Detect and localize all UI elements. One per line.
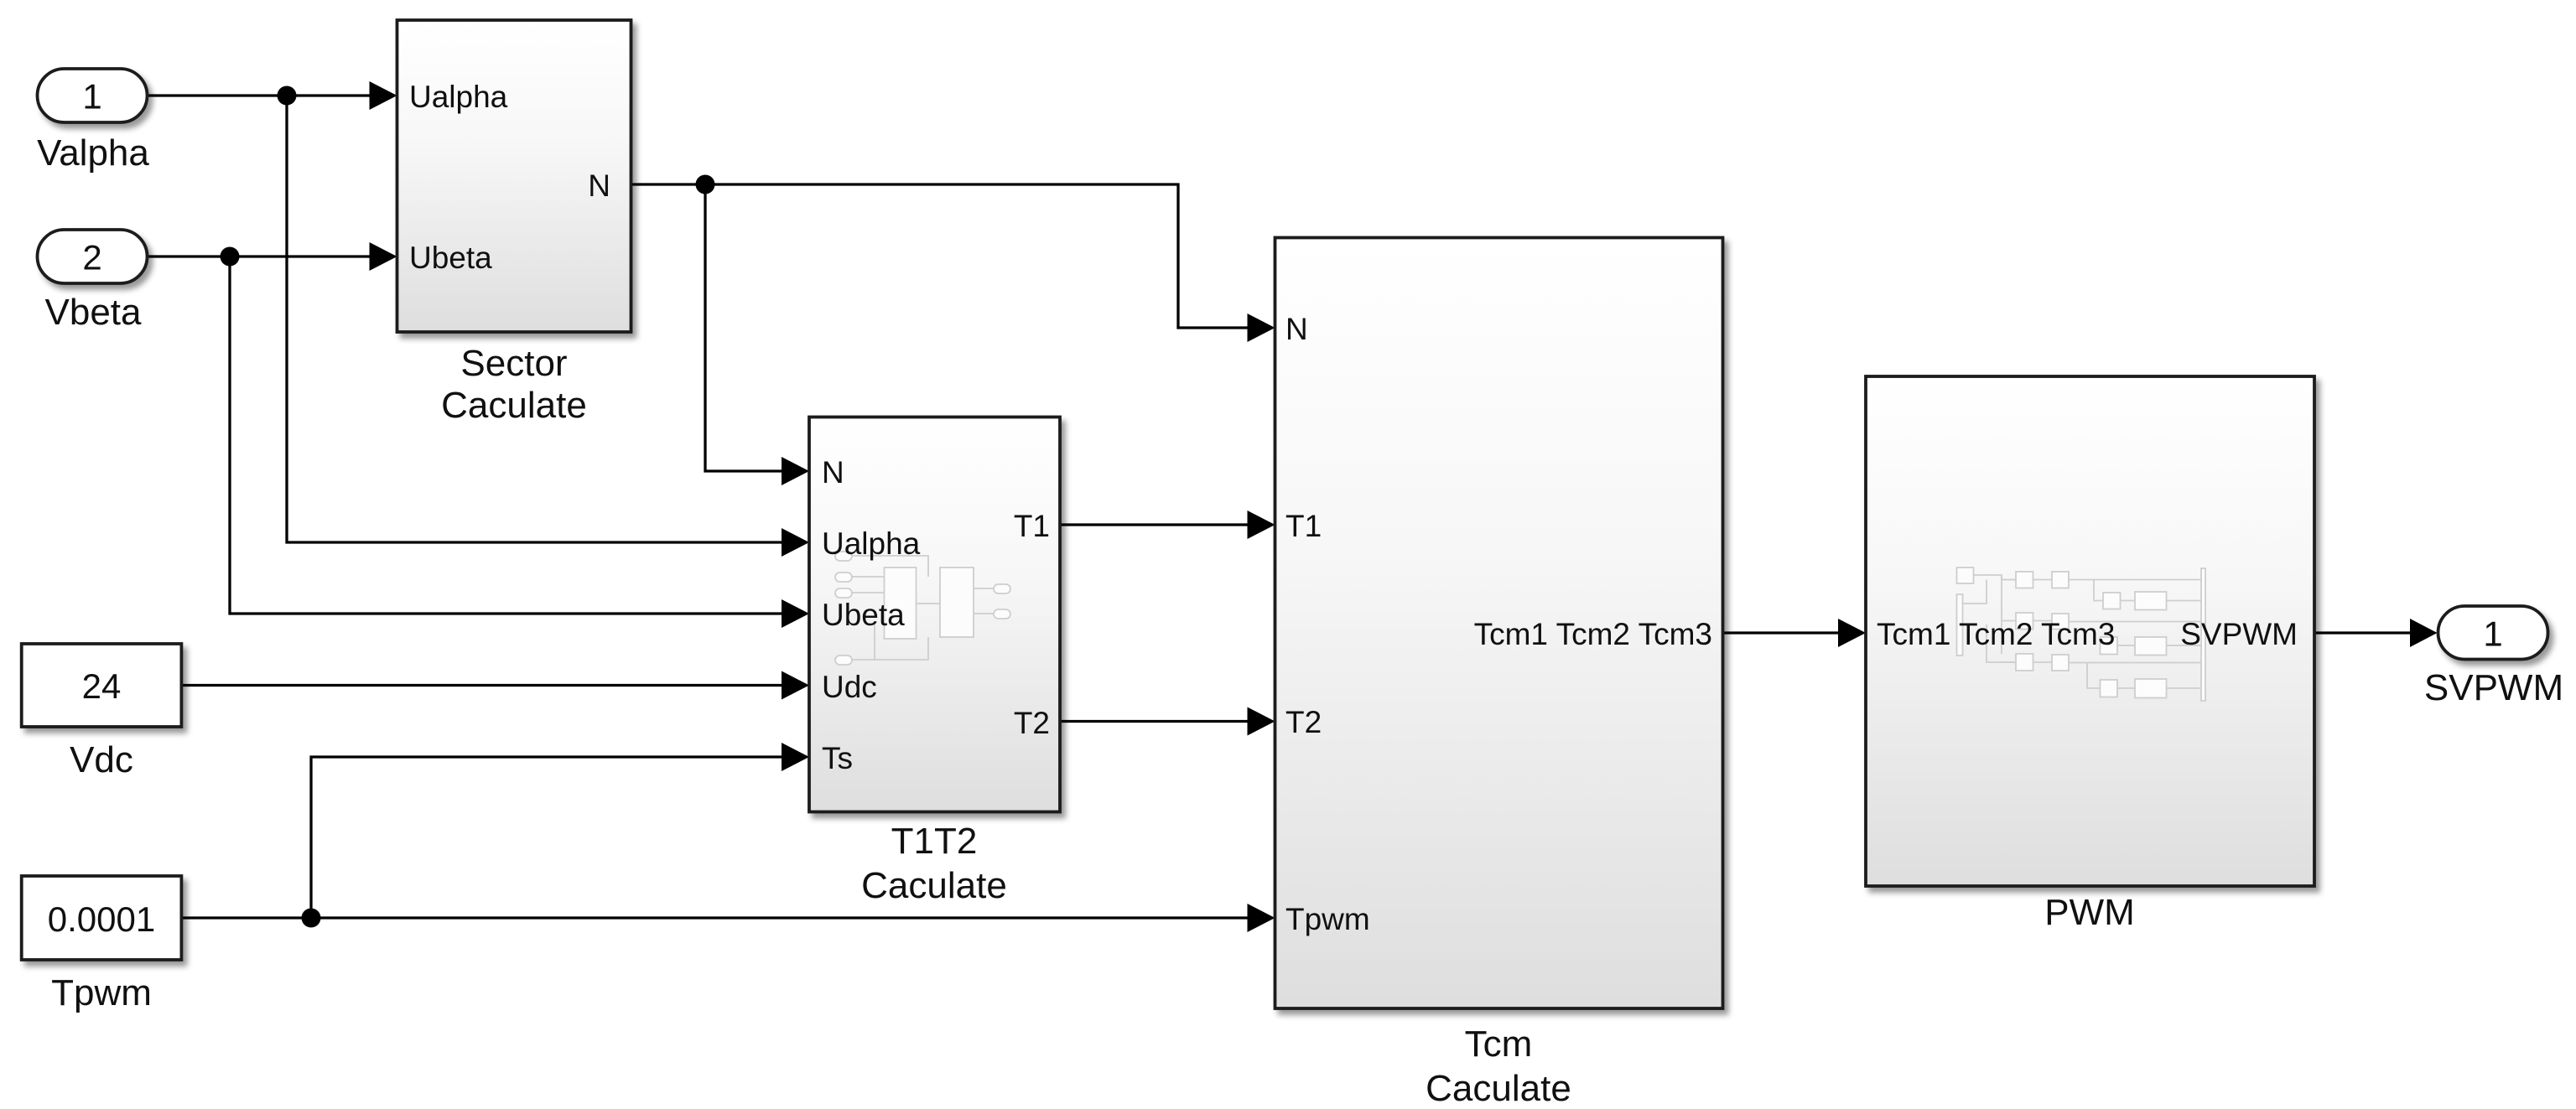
junction on N wire [696, 175, 715, 194]
arrowhead Tcm T1 [1248, 510, 1275, 539]
wire T1T2 T2 to Tcm T2 [1060, 720, 1248, 723]
svg-text:Tpwm: Tpwm [1285, 902, 1370, 936]
wire Vbeta to Sector Ubeta [148, 255, 370, 257]
svg-text:Valpha: Valpha [37, 132, 149, 174]
block PWM [1866, 376, 2314, 886]
svg-text:Ubeta: Ubeta [409, 241, 492, 275]
svg-text:PWM: PWM [2044, 892, 2135, 933]
wire branch Tpwm up to T1T2 Ts [311, 757, 782, 918]
svg-text:T1T2: T1T2 [891, 821, 978, 862]
arrowhead Tcm T2 [1248, 707, 1275, 736]
svg-text:Ualpha: Ualpha [409, 80, 508, 114]
svg-text:24: 24 [82, 666, 122, 706]
svg-text:1: 1 [2483, 614, 2502, 654]
svg-text:T2: T2 [1014, 706, 1050, 740]
thumbnail inside T1T2 [835, 552, 1010, 665]
arrowhead Sector Ubeta [370, 242, 397, 271]
input port 1 Valpha [38, 69, 148, 122]
block T1T2 Caculate [809, 417, 1060, 812]
svg-text:Caculate: Caculate [441, 385, 587, 426]
svg-text:Vdc: Vdc [70, 739, 133, 780]
constant block Vdc value 24 [22, 644, 182, 727]
arrowhead SVPWM port [2410, 619, 2438, 647]
svg-text:Sector: Sector [460, 343, 567, 384]
block Sector Caculate [397, 20, 631, 332]
wire branch Vbeta down to T1T2 Ubeta [230, 257, 782, 614]
wire Tcm output to PWM input [1723, 631, 1839, 634]
svg-text:Vbeta: Vbeta [45, 292, 143, 333]
svg-text:SVPWM: SVPWM [2424, 667, 2563, 708]
svg-text:T1: T1 [1285, 509, 1322, 543]
input port 2 Vbeta [38, 230, 148, 283]
junction on Tpwm wire [302, 909, 321, 928]
svg-text:Ualpha: Ualpha [822, 526, 921, 561]
svg-text:Tcm1 Tcm2 Tcm3: Tcm1 Tcm2 Tcm3 [1877, 617, 2115, 651]
wire PWM output to SVPWM port [2314, 631, 2410, 634]
svg-text:Udc: Udc [822, 670, 877, 704]
arrowhead T1T2 Ualpha [782, 528, 809, 557]
wire Vdc to T1T2 Udc [181, 684, 782, 687]
arrowhead T1T2 Ts [782, 743, 809, 771]
arrowhead PWM input [1838, 619, 1866, 647]
svg-text:N: N [822, 455, 844, 490]
svg-text:Ubeta: Ubeta [822, 598, 905, 632]
svg-text:SVPWM: SVPWM [2180, 617, 2298, 651]
svg-text:T2: T2 [1285, 705, 1322, 739]
wire branch Valpha down to T1T2 Ualpha [287, 96, 782, 542]
svg-text:N: N [1285, 312, 1308, 346]
svg-text:Caculate: Caculate [1426, 1068, 1571, 1109]
wire T1T2 T1 to Tcm T1 [1060, 523, 1248, 526]
junction on Valpha wire [278, 86, 297, 106]
svg-text:Tcm: Tcm [1465, 1023, 1533, 1065]
svg-text:Caculate: Caculate [861, 865, 1007, 906]
junction on Vbeta wire [221, 247, 240, 267]
output port 1 SVPWM [2438, 606, 2548, 660]
wire branch N down to T1T2 N [705, 184, 782, 471]
svg-text:1: 1 [82, 77, 101, 117]
svg-text:0.0001: 0.0001 [48, 899, 155, 939]
wire Valpha to Sector Ualpha [148, 94, 370, 96]
arrowhead T1T2 Udc [782, 671, 809, 700]
svg-text:Tcm1 Tcm2 Tcm3: Tcm1 Tcm2 Tcm3 [1474, 617, 1712, 651]
wire Tpwm to Tcm Tpwm [181, 916, 1247, 919]
svg-text:N: N [588, 168, 610, 203]
constant block Tpwm value 0.0001 [22, 876, 182, 960]
block Tcm Caculate [1275, 238, 1723, 1009]
thumbnail inside PWM [1957, 567, 2206, 701]
arrowhead T1T2 N [782, 457, 809, 485]
svg-text:T1: T1 [1014, 509, 1050, 543]
arrowhead Sector Ualpha [370, 81, 397, 110]
arrowhead Tcm Tpwm [1248, 904, 1275, 932]
svg-text:Tpwm: Tpwm [51, 972, 152, 1013]
arrowhead T1T2 Ubeta [782, 599, 809, 628]
svg-text:2: 2 [82, 238, 101, 277]
arrowhead Tcm N [1248, 314, 1275, 342]
wire Sector N to Tcm N [631, 184, 1248, 328]
svg-text:Ts: Ts [822, 741, 853, 775]
